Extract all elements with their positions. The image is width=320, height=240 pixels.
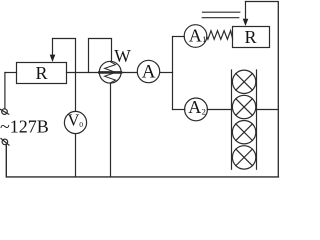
svg-text:A: A bbox=[189, 25, 202, 45]
svg-text:1: 1 bbox=[202, 34, 206, 44]
svg-text:~127В: ~127В bbox=[0, 117, 49, 137]
svg-text:A: A bbox=[188, 97, 201, 117]
svg-text:R: R bbox=[244, 27, 256, 47]
svg-text:R: R bbox=[35, 63, 47, 83]
svg-text:2: 2 bbox=[202, 107, 206, 117]
svg-text:0: 0 bbox=[79, 120, 83, 129]
svg-text:W: W bbox=[114, 46, 131, 66]
svg-text:A: A bbox=[142, 62, 156, 83]
svg-text:V: V bbox=[68, 111, 80, 130]
